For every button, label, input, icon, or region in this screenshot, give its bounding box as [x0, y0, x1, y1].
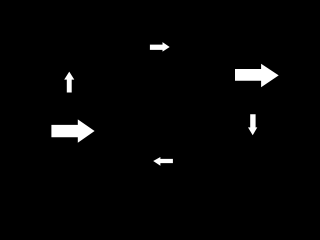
arrow right (left side, large) — [51, 119, 94, 142]
arrow right (right side, large) — [235, 64, 279, 88]
arrow up (left side) — [64, 72, 74, 93]
arrow left (bottom center, small) — [153, 157, 173, 166]
arrow right (top center, small) — [150, 42, 170, 52]
arrow down (right side) — [248, 114, 257, 135]
